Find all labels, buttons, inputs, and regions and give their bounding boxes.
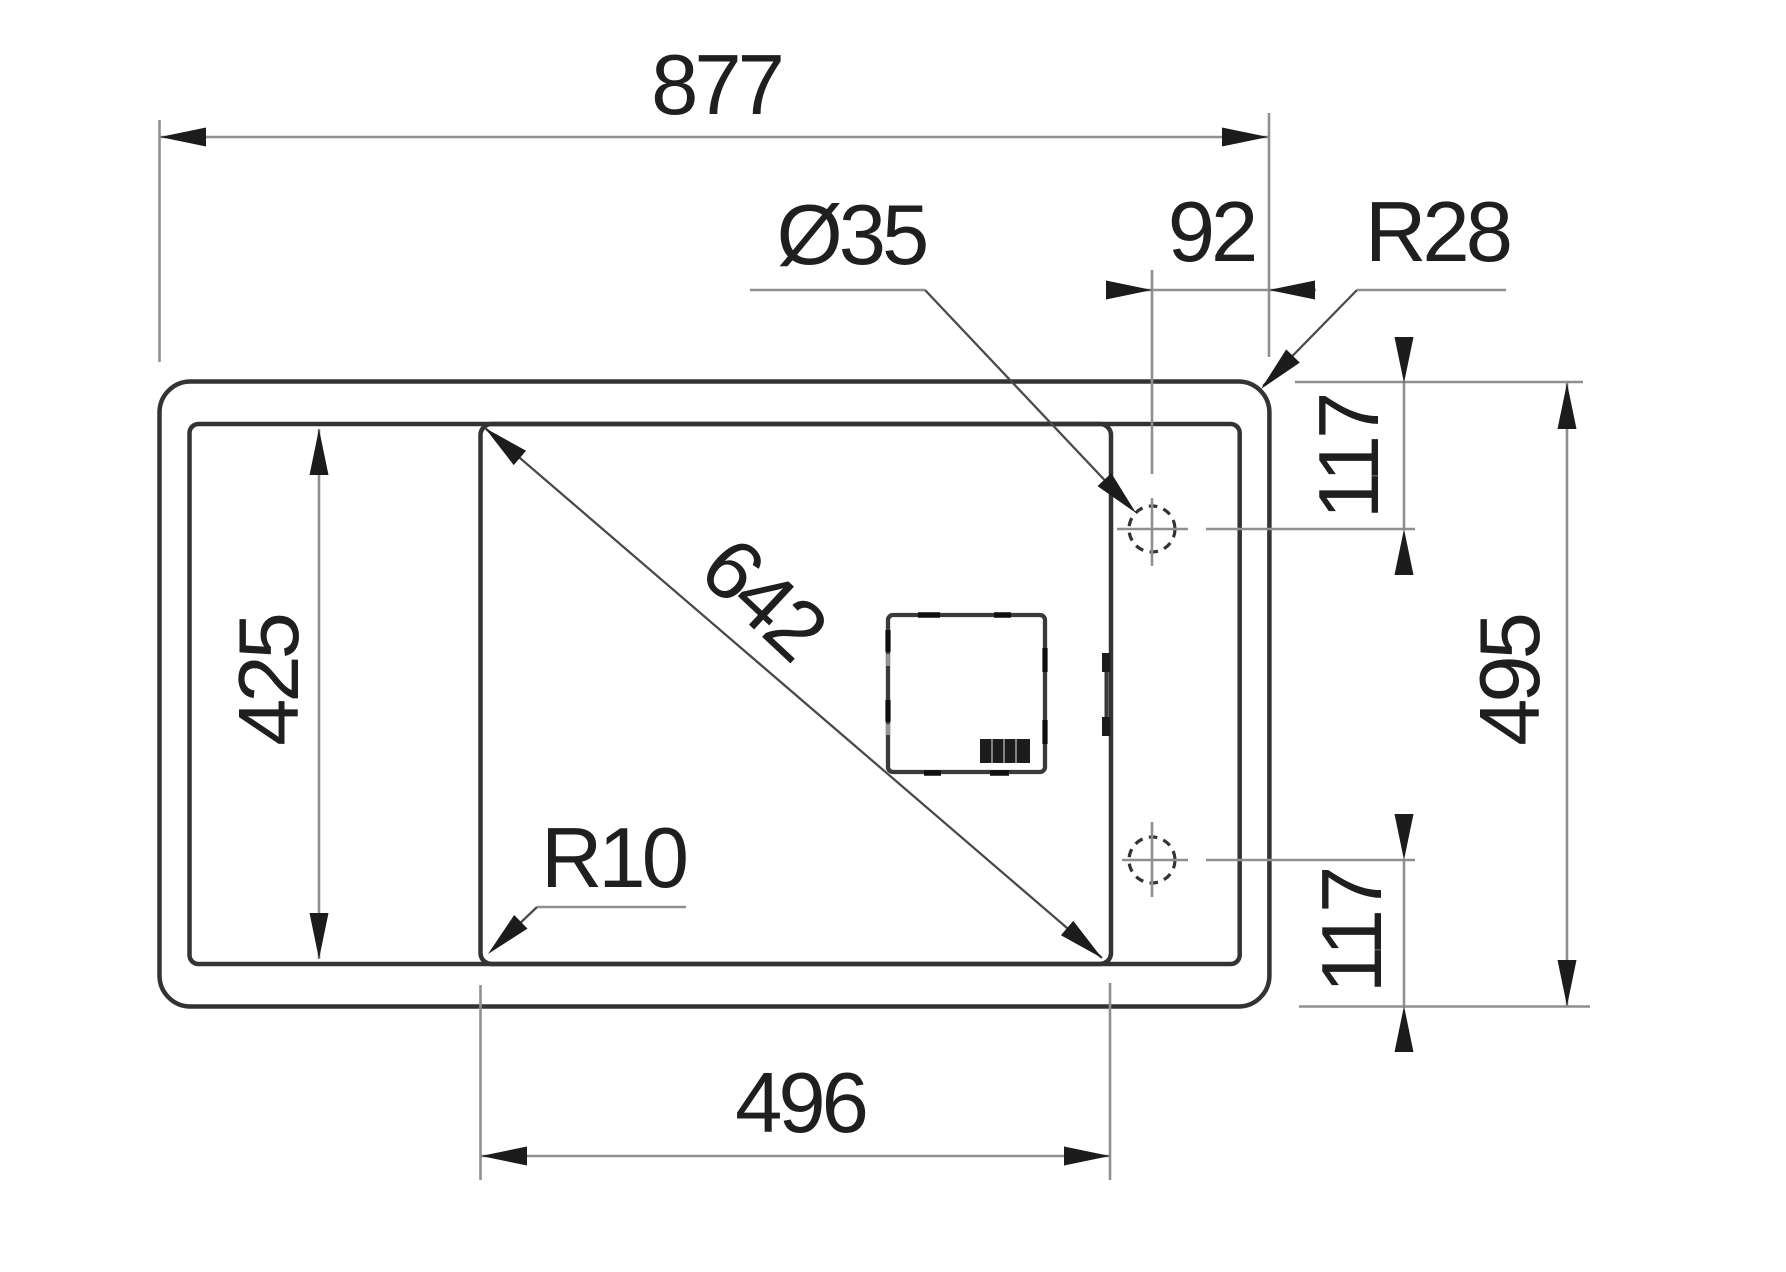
dimension 495 text [1463,615,1558,746]
dimension 877 line [160,128,1270,147]
dimension 92 text [1168,185,1255,280]
dimension 642 text [683,519,843,677]
svg-text:877: 877 [651,38,781,133]
dimension 495 line [1558,383,1577,1006]
dimension 117 bottom text [1305,870,1400,994]
dimension 92 line [1106,281,1316,300]
dimension 117 bottom line [1395,814,1414,1052]
dimension 496 text [735,1056,866,1151]
svg-text:117: 117 [1305,870,1400,994]
tap hole 2 centerlines [1122,822,1415,897]
dimension 877 extension lines [160,113,1270,362]
inner rim outline [190,424,1240,964]
dimension 425 line [310,429,329,959]
dimension 496 extension lines [481,983,1111,1180]
svg-text:R28: R28 [1365,185,1510,280]
dimension 496 line [481,1147,1110,1166]
svg-text:495: 495 [1463,615,1558,746]
dimension 425 text [222,615,317,746]
svg-text:117: 117 [1302,396,1397,520]
dimension 877 text [651,38,781,133]
leader R10 [488,907,686,954]
overflow slot hatched [980,739,1030,763]
tap hole 1 dashed circle [1129,506,1175,552]
outer sink outline [160,382,1270,1007]
overflow hidden dash on bowl edge [1102,653,1110,736]
svg-text:R10: R10 [541,811,686,906]
waste square [888,615,1045,773]
dimension 642 diagonal [485,428,1102,958]
bowl outline R10 [481,424,1112,964]
label R28 [1365,185,1510,280]
svg-text:Ø35: Ø35 [777,188,926,283]
svg-text:425: 425 [222,615,317,746]
label R10 [541,811,686,906]
leader diameter 35 [750,290,1136,513]
svg-text:496: 496 [735,1056,866,1151]
label diameter 35 [777,188,926,283]
dimension 117 top line [1395,337,1414,575]
tap hole 1 centerlines [1117,270,1415,566]
tap hole 2 dashed circle [1129,837,1175,883]
dimension 117 top extension line [1295,381,1583,384]
svg-text:92: 92 [1168,185,1255,280]
leader R28 [1261,290,1506,389]
dimension 117 top text [1302,396,1397,520]
dimension 117 bottom extension line [1299,1005,1590,1008]
